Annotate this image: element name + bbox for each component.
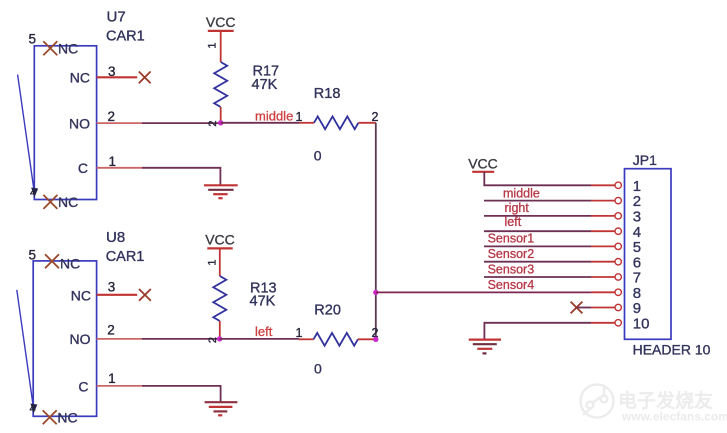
U7 pin 4 no-connect X — [43, 195, 57, 209]
wire VCC to R17 pin 1 — [220, 31, 222, 62]
svg-text:middle: middle — [503, 187, 540, 201]
U8 pin 5 no-connect X — [45, 254, 59, 268]
svg-text:2: 2 — [207, 121, 219, 127]
svg-text:3: 3 — [108, 64, 116, 79]
svg-text:R18: R18 — [314, 86, 341, 102]
U7 pin 3 — [97, 76, 138, 78]
svg-text:NO: NO — [69, 115, 90, 131]
svg-text:NC: NC — [71, 287, 91, 303]
svg-text:0: 0 — [314, 148, 322, 164]
wire net Sensor3 to JP1 pin 7 — [484, 276, 591, 278]
wire net right to JP1 pin 3 — [484, 215, 591, 217]
JP1 pin 2 — [591, 193, 641, 210]
JP1 pin 9 — [591, 300, 641, 317]
JP1 pin 4 — [591, 224, 641, 241]
svg-text:1: 1 — [109, 154, 117, 169]
JP1 pin 5 — [591, 239, 641, 256]
svg-text:Sensor2: Sensor2 — [488, 247, 535, 261]
svg-text:U8: U8 — [106, 229, 125, 246]
wire junction to JP1 pin 8 (net Sensor4) — [376, 291, 591, 293]
svg-text:HEADER 10: HEADER 10 — [633, 342, 711, 358]
wire X to JP1 pin 9 — [577, 307, 591, 309]
watermark logo elecfans — [581, 385, 614, 418]
R13 pin 2 wire to junction — [219, 321, 221, 339]
JP1 pin 8 — [591, 285, 641, 302]
svg-text:0: 0 — [314, 361, 322, 377]
svg-text:Sensor4: Sensor4 — [488, 278, 535, 292]
wire R18 pin 2 down to R20 pin 2 — [375, 123, 377, 339]
wire U7 pin 2 to R17 junction (net middle) — [142, 122, 221, 124]
svg-text:C: C — [78, 160, 88, 176]
resistor R13 body — [213, 276, 226, 321]
svg-text:5: 5 — [29, 32, 37, 47]
wire VCC to R13 pin 1 — [219, 248, 221, 276]
wire U8 pin 2 to R13 junction (net left) — [142, 338, 220, 340]
JP1 pin 10 — [591, 315, 649, 332]
ground symbol at JP1 — [469, 340, 501, 354]
svg-text:right: right — [505, 201, 530, 215]
svg-text:2: 2 — [107, 323, 115, 338]
ground symbol under U7 — [204, 185, 238, 198]
VCC bar (JP1) — [472, 171, 494, 173]
wire VCC to JP1 pin 1 — [484, 172, 591, 186]
svg-text:1: 1 — [108, 371, 116, 386]
R18 pin 2 — [358, 122, 375, 124]
svg-text:C: C — [78, 378, 88, 394]
resistor R17 body — [214, 62, 227, 107]
wire U8 pin 1 to ground — [142, 386, 221, 402]
JP1 pin 7 — [591, 270, 641, 287]
U8 pin 2 — [97, 338, 142, 340]
svg-text:NC: NC — [58, 194, 78, 210]
svg-text:VCC: VCC — [206, 14, 236, 30]
svg-text:NC: NC — [60, 256, 80, 272]
R20 pin 2 — [358, 338, 376, 340]
U8 switch lever — [17, 290, 34, 411]
svg-text:2: 2 — [108, 109, 116, 124]
U8 pin 3 — [97, 294, 138, 296]
svg-text:2: 2 — [372, 110, 379, 124]
U7 switch lever — [18, 75, 35, 195]
svg-text:4: 4 — [30, 403, 36, 415]
JP1 pin 1 — [591, 178, 641, 195]
JP1 pin 6 — [591, 254, 641, 271]
wire junction to R18 pin 1 — [221, 122, 299, 124]
VCC bar (R17) — [208, 30, 234, 32]
U7 pin 3 no-connect X — [139, 72, 151, 84]
JP1 pin 3 — [591, 209, 641, 226]
U8 pin 4 arrowhead — [30, 404, 37, 414]
wire net Sensor1 to JP1 pin 5 — [484, 245, 591, 247]
R18 pin 1 — [299, 122, 314, 124]
wire net Sensor2 to JP1 pin 6 — [484, 261, 591, 263]
svg-text:R20: R20 — [314, 303, 341, 319]
U7 pin 1 — [97, 167, 142, 169]
svg-text:1: 1 — [207, 43, 219, 49]
svg-text:U7: U7 — [107, 9, 126, 26]
U7 pin 4 arrowhead — [31, 188, 38, 198]
JP1 pin 9 no-connect X — [571, 302, 583, 314]
U7 pin 2 — [97, 122, 142, 124]
svg-text:47K: 47K — [252, 77, 278, 93]
connector U8 body (CAR1) — [33, 261, 96, 416]
svg-text:JP1: JP1 — [633, 152, 657, 168]
ground symbol under U8 — [205, 402, 238, 415]
svg-text:VCC: VCC — [205, 232, 235, 248]
svg-text:10: 10 — [633, 315, 650, 332]
svg-text:left: left — [255, 324, 273, 339]
resistor R18 body — [314, 116, 358, 129]
svg-text:CAR1: CAR1 — [106, 29, 145, 45]
svg-text:5: 5 — [29, 248, 37, 263]
junction node left — [217, 336, 222, 341]
R17 pin 2 wire to junction — [220, 107, 222, 123]
wire junction to R20 pin 1 — [220, 338, 299, 340]
svg-text:Sensor3: Sensor3 — [488, 262, 535, 276]
wire net middle to JP1 pin 2 — [484, 200, 591, 202]
junction node Sensor4 branch — [373, 290, 378, 295]
svg-text:47K: 47K — [250, 294, 276, 310]
svg-text:3: 3 — [108, 280, 116, 295]
svg-text:middle: middle — [255, 109, 293, 124]
U8 pin 3 no-connect X — [139, 289, 151, 301]
wire net left to JP1 pin 4 — [484, 230, 591, 232]
junction node middle — [218, 120, 223, 125]
U8 pin 1 — [97, 385, 142, 387]
svg-text:left: left — [505, 215, 522, 229]
svg-text:www.elecfans.com: www.elecfans.com — [621, 410, 727, 424]
svg-text:Sensor1: Sensor1 — [488, 232, 535, 246]
U8 pin 4 no-connect X — [43, 410, 57, 424]
junction node R20 pin 2 — [373, 337, 378, 342]
svg-text:CAR1: CAR1 — [106, 249, 145, 265]
svg-text:VCC: VCC — [468, 155, 498, 171]
svg-text:NC: NC — [58, 41, 78, 57]
U7 pin 5 no-connect X — [43, 41, 57, 55]
connector U7 body (CAR1) — [34, 46, 96, 200]
connector JP1 body (HEADER 10) — [625, 169, 672, 340]
wire U7 pin 1 to ground — [142, 168, 220, 186]
svg-text:1: 1 — [296, 326, 303, 340]
VCC bar (R13) — [207, 247, 232, 249]
svg-text:NO: NO — [70, 331, 91, 347]
R20 pin 1 — [299, 338, 314, 340]
svg-text:1: 1 — [207, 260, 219, 266]
svg-text:4: 4 — [30, 187, 36, 199]
resistor R20 body — [314, 333, 358, 346]
svg-text:NC: NC — [70, 70, 90, 86]
wire JP1 pin 10 to ground — [484, 323, 591, 340]
svg-text:1: 1 — [296, 110, 303, 124]
svg-text:NC: NC — [57, 410, 77, 426]
